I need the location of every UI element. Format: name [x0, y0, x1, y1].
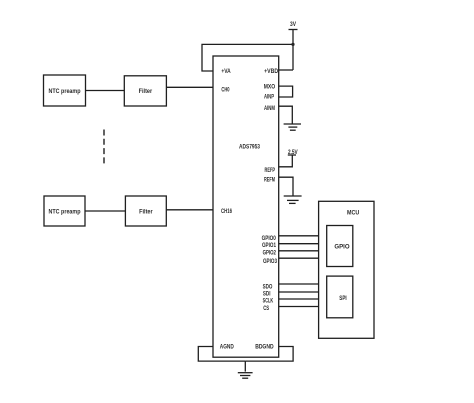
power 2.5V reference symbol [288, 150, 298, 156]
ground symbol (AINM) [284, 124, 301, 130]
wire NTC preamp (bottom) to Filter (bottom) [85, 210, 125, 212]
svg-text:+VA: +VA [221, 69, 231, 75]
svg-text:MCU: MCU [347, 209, 360, 216]
dashed ellipsis line (more channels) [103, 130, 105, 165]
power 3V supply symbol [289, 22, 298, 30]
svg-text:AGND: AGND [220, 345, 235, 351]
wire NTC preamp (top) to Filter (top) [86, 90, 125, 92]
ADC U1 ADS7953 [213, 56, 279, 357]
wire ground stem [244, 361, 246, 372]
ground symbol (bottom) [238, 373, 253, 379]
wire CS to MCU [279, 306, 319, 308]
svg-text:SPI: SPI [339, 295, 347, 302]
wire Filter (bottom) to CH16 [166, 209, 213, 211]
svg-text:CH16: CH16 [221, 209, 232, 215]
svg-text:MXO: MXO [264, 85, 276, 91]
svg-text:CS: CS [263, 306, 269, 312]
svg-text:GPIO0: GPIO0 [262, 236, 277, 242]
svg-text:Filter: Filter [139, 88, 153, 95]
wire GPIO0 to MCU [279, 235, 319, 237]
block NTC preamp (top) [44, 75, 86, 106]
wire SCLK to MCU [279, 298, 319, 300]
svg-text:AINP: AINP [264, 95, 274, 101]
block Filter (top) [124, 76, 166, 106]
svg-text:NTC preamp: NTC preamp [49, 88, 81, 95]
wire AINM to ground [279, 106, 293, 124]
wire Filter (top) to CH0 [166, 86, 213, 88]
block NTC preamp (bottom) [44, 196, 85, 226]
wire GPIO2 to MCU [279, 250, 319, 252]
wire 2.5V to REFP [279, 155, 293, 167]
wire REFM to ground [279, 177, 293, 195]
wire +VBD pin to 3V net [279, 69, 293, 71]
svg-text:REFM: REFM [264, 178, 275, 184]
wire SDI to MCU [279, 291, 319, 293]
svg-text:SDO: SDO [263, 284, 273, 290]
svg-text:Filter: Filter [139, 209, 153, 216]
svg-text:BDGND: BDGND [255, 345, 274, 351]
svg-text:SCLK: SCLK [263, 299, 274, 305]
wire GPIO1 to MCU [279, 243, 319, 245]
svg-text:CH0: CH0 [221, 88, 230, 94]
svg-text:NTC preamp: NTC preamp [49, 209, 81, 216]
svg-text:SDI: SDI [263, 292, 271, 298]
ground symbol (REFM) [284, 196, 302, 203]
svg-text:GPIO2: GPIO2 [263, 251, 277, 257]
wire AGND to ground [198, 347, 245, 362]
wire GPIO3 to MCU [279, 257, 319, 259]
svg-text:REFP: REFP [265, 168, 276, 174]
svg-text:GPIO3: GPIO3 [263, 259, 278, 265]
svg-text:+VBD: +VBD [264, 69, 279, 75]
SPI block [327, 276, 353, 318]
wire 3V net loop to +VA [202, 44, 293, 71]
svg-text:AINM: AINM [264, 106, 275, 112]
wire 3V stem down to +VBD [292, 30, 294, 71]
block Filter (bottom) [125, 196, 166, 226]
svg-text:GPIO: GPIO [334, 244, 349, 251]
GPIO block [327, 226, 353, 267]
wire BDGND to ground [245, 347, 293, 362]
svg-text:GPIO1: GPIO1 [262, 243, 277, 249]
svg-text:ADS7953: ADS7953 [239, 144, 260, 151]
wire SDO to MCU [279, 283, 319, 285]
node junction 3V net [291, 43, 294, 46]
MCU block [319, 201, 374, 338]
wire MXO loopback [279, 86, 293, 97]
svg-text:3V: 3V [290, 22, 296, 28]
